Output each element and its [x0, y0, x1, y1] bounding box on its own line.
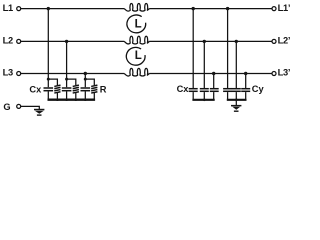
junction dots on phase lines	[47, 7, 248, 75]
svg-text:L: L	[135, 19, 142, 31]
wire L3 line left segment	[21, 73, 124, 75]
junction dots on rails	[56, 98, 238, 101]
wire drop L3 to Cx unit 3	[84, 74, 86, 80]
wire drop L2 to Cy2	[235, 41, 237, 88]
wire drop L3 to right Cx3	[213, 74, 215, 89]
wire top connector unit 2	[67, 79, 76, 85]
terminal L1'	[272, 7, 276, 11]
capacitor Cy2 leg lower	[235, 92, 237, 100]
capacitor Cx3 plates	[81, 88, 91, 91]
core symbol circle 1	[127, 15, 146, 33]
junction dots at RC unit tops	[47, 78, 87, 81]
capacitor right Cx1 plates	[189, 89, 198, 92]
resistor R3 hatch	[91, 85, 97, 93]
capacitor right Cx2 leg lower	[203, 92, 205, 100]
resistor R2 lower leg	[75, 93, 77, 100]
terminal L3'	[272, 72, 276, 76]
capacitor Cy3 plates	[241, 89, 250, 92]
inductor coil L2	[124, 36, 149, 44]
wire drop L2 to Cx unit 2	[66, 41, 68, 79]
capacitor Cx3 leg lower	[84, 92, 86, 100]
terminal L3	[17, 72, 21, 76]
capacitor Cx2 leg lower	[66, 92, 68, 100]
wire drop L1 to right Cx1	[192, 9, 194, 88]
inductor coil L1	[124, 3, 149, 11]
ground symbol at Cy	[231, 105, 241, 112]
capacitor Cy1 plates	[223, 89, 232, 92]
capacitor Cx1 leg lower	[47, 92, 49, 100]
resistor R2 hatch	[73, 85, 79, 93]
wire drop L3 to Cy3	[245, 74, 247, 89]
wire L3 line right segment	[149, 73, 271, 75]
svg-text:L1: L1	[3, 3, 13, 13]
wire L2 line left segment	[21, 40, 124, 42]
capacitor Cx2 plates	[62, 88, 72, 91]
capacitor Cy1 leg lower	[227, 92, 229, 100]
wire right Cx star rail	[192, 99, 214, 101]
inductor coil L3	[124, 68, 149, 76]
terminal L2	[17, 39, 21, 43]
svg-text:L1’: L1’	[278, 3, 291, 13]
svg-text:L3: L3	[3, 68, 13, 78]
wire Cy ground stub	[235, 100, 237, 105]
capacitor right Cx2 plates	[200, 89, 209, 92]
svg-text:L2: L2	[3, 35, 13, 45]
wire drop L2 to right Cx2	[203, 41, 205, 88]
svg-text:R: R	[100, 84, 107, 94]
resistor R3 lower leg	[93, 93, 95, 100]
svg-text:Cy: Cy	[252, 84, 265, 94]
capacitor right Cx3 plates	[210, 89, 219, 92]
capacitor Cx3 leg upper	[84, 79, 86, 87]
svg-text:L2’: L2’	[278, 35, 291, 45]
wire L1 line left segment	[21, 8, 124, 10]
svg-text:Cx: Cx	[177, 84, 190, 94]
wire G	[21, 106, 39, 109]
wire L1 line right segment	[149, 8, 271, 10]
capacitor right Cx3 leg lower	[213, 92, 215, 100]
capacitor Cx2 leg upper	[66, 79, 68, 87]
capacitor Cy3 leg lower	[245, 92, 247, 100]
svg-text:Cx: Cx	[29, 84, 42, 94]
svg-text:L3’: L3’	[278, 68, 291, 78]
wire drop L1 to Cx unit 1	[47, 9, 49, 80]
wire Cy star rail	[227, 99, 247, 101]
resistor R1 lower leg	[56, 93, 58, 100]
capacitor right Cx1 leg lower	[192, 92, 194, 100]
capacitor Cy2 plates	[232, 89, 241, 92]
ground symbol at G	[34, 109, 44, 116]
wire drop L1 to Cy1	[227, 9, 229, 88]
terminal G	[17, 104, 21, 108]
capacitor Cx1 leg upper	[47, 79, 49, 87]
resistor R1 hatch	[54, 85, 60, 93]
terminal L2'	[272, 39, 276, 43]
wire left star rail	[48, 99, 96, 101]
capacitor Cx1 plates	[44, 88, 54, 91]
wire L2 line right segment	[149, 40, 271, 42]
terminal L1	[17, 7, 21, 11]
wire top connector unit 1	[48, 79, 57, 85]
svg-text:L: L	[135, 50, 142, 62]
core symbol circle 2	[126, 47, 145, 65]
svg-text:G: G	[3, 102, 10, 112]
wire top connector unit 3	[85, 79, 94, 85]
